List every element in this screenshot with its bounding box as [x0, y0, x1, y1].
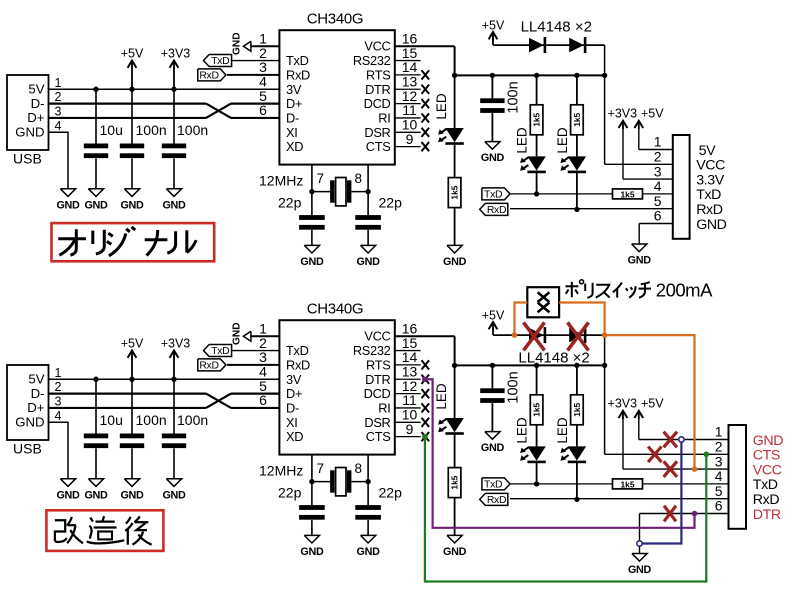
- svg-text:8: 8: [355, 171, 363, 186]
- svg-text:10u: 10u: [100, 412, 123, 428]
- svg-text:22p: 22p: [278, 485, 302, 501]
- svg-text:+5V: +5V: [641, 396, 664, 410]
- svg-text:GND: GND: [84, 199, 108, 211]
- svg-text:22p: 22p: [379, 195, 403, 211]
- svg-text:DSR: DSR: [364, 125, 390, 140]
- svg-text:+3V3: +3V3: [161, 47, 191, 61]
- svg-text:RxD: RxD: [286, 67, 310, 82]
- svg-text:8: 8: [355, 461, 363, 476]
- svg-text:1: 1: [715, 424, 723, 440]
- svg-text:GND: GND: [15, 125, 44, 140]
- svg-text:6: 6: [259, 102, 267, 118]
- svg-text:100n: 100n: [136, 122, 167, 138]
- svg-text:GND: GND: [300, 256, 324, 268]
- svg-text:TxD: TxD: [484, 480, 502, 491]
- svg-text:DTR: DTR: [753, 507, 781, 523]
- svg-text:RxD: RxD: [487, 495, 506, 506]
- svg-text:1: 1: [654, 134, 662, 150]
- svg-text:CTS: CTS: [366, 139, 391, 154]
- svg-text:D+: D+: [286, 96, 302, 111]
- svg-text:GND: GND: [696, 217, 726, 233]
- svg-text:RxD: RxD: [696, 202, 723, 218]
- svg-text:6: 6: [715, 498, 723, 514]
- svg-text:GND: GND: [162, 199, 186, 211]
- svg-text:D+: D+: [27, 400, 45, 415]
- svg-text:RI: RI: [378, 110, 390, 125]
- svg-text:RxD: RxD: [199, 71, 218, 82]
- svg-text:7: 7: [317, 171, 325, 186]
- svg-text:GND: GND: [162, 489, 186, 501]
- svg-text:1k5: 1k5: [532, 402, 542, 416]
- svg-text:GND: GND: [300, 546, 324, 558]
- svg-text:DSR: DSR: [364, 415, 390, 430]
- svg-text:GND: GND: [231, 32, 242, 55]
- svg-text:USB: USB: [13, 151, 42, 167]
- svg-text:TxD: TxD: [211, 56, 229, 67]
- svg-text:12MHz: 12MHz: [259, 463, 303, 479]
- svg-text:RI: RI: [378, 400, 390, 415]
- svg-text:10u: 10u: [100, 122, 123, 138]
- svg-text:RTS: RTS: [366, 67, 390, 82]
- svg-text:22p: 22p: [379, 485, 403, 501]
- svg-text:4: 4: [55, 409, 62, 423]
- svg-text:LED: LED: [555, 127, 570, 154]
- svg-text:RS232: RS232: [353, 53, 391, 68]
- svg-text:GND: GND: [120, 489, 144, 501]
- svg-text:3V: 3V: [286, 82, 302, 97]
- svg-text:3: 3: [55, 104, 62, 118]
- svg-text:9: 9: [406, 131, 414, 147]
- svg-text:2: 2: [55, 380, 62, 394]
- svg-text:3: 3: [715, 453, 723, 469]
- svg-text:GND: GND: [753, 433, 783, 449]
- svg-text:LED: LED: [434, 93, 449, 120]
- svg-text:1k5: 1k5: [450, 475, 460, 489]
- svg-text:GND: GND: [15, 415, 44, 430]
- svg-text:100n: 100n: [177, 122, 208, 138]
- svg-text:TxD: TxD: [753, 477, 778, 493]
- svg-text:+5V: +5V: [641, 106, 664, 120]
- svg-text:7: 7: [317, 461, 325, 476]
- svg-text:CH340G: CH340G: [307, 301, 364, 318]
- svg-text:RTS: RTS: [366, 357, 390, 372]
- svg-text:CTS: CTS: [753, 448, 780, 464]
- svg-text:1k5: 1k5: [621, 479, 635, 489]
- svg-text:D+: D+: [27, 110, 45, 125]
- svg-text:GND: GND: [56, 489, 80, 501]
- svg-text:LED: LED: [515, 127, 530, 154]
- svg-text:GND: GND: [120, 199, 144, 211]
- svg-text:3: 3: [55, 394, 62, 408]
- svg-text:XI: XI: [286, 125, 298, 140]
- svg-text:RxD: RxD: [286, 357, 310, 372]
- svg-text:GND: GND: [443, 546, 467, 558]
- svg-text:4: 4: [654, 178, 662, 194]
- svg-text:1k5: 1k5: [450, 185, 460, 199]
- svg-text:5V: 5V: [699, 143, 716, 159]
- svg-text:LL4148 ×2: LL4148 ×2: [521, 19, 592, 36]
- svg-text:DCD: DCD: [364, 96, 391, 111]
- svg-text:+5V: +5V: [121, 47, 144, 61]
- svg-text:XD: XD: [286, 429, 303, 444]
- svg-text:2: 2: [715, 439, 723, 455]
- svg-text:TxD: TxD: [484, 190, 502, 201]
- svg-text:DTR: DTR: [365, 372, 390, 387]
- svg-text:22p: 22p: [278, 195, 302, 211]
- svg-text:LED: LED: [515, 417, 530, 444]
- svg-text:D+: D+: [286, 386, 302, 401]
- svg-text:200mA: 200mA: [656, 279, 713, 300]
- svg-text:LED: LED: [434, 383, 449, 410]
- svg-text:GND: GND: [357, 256, 381, 268]
- svg-text:VCC: VCC: [364, 329, 390, 344]
- svg-text:100n: 100n: [506, 371, 522, 403]
- svg-text:GND: GND: [84, 489, 108, 501]
- svg-text:+5V: +5V: [121, 337, 144, 351]
- svg-text:6: 6: [259, 392, 267, 408]
- svg-text:DCD: DCD: [364, 386, 391, 401]
- svg-text:1k5: 1k5: [572, 112, 582, 126]
- svg-text:D-: D-: [31, 386, 45, 401]
- svg-text:3V: 3V: [286, 372, 302, 387]
- svg-text:+5V: +5V: [482, 309, 505, 323]
- svg-text:100n: 100n: [177, 412, 208, 428]
- svg-text:CTS: CTS: [366, 429, 391, 444]
- svg-text:+3V3: +3V3: [608, 106, 638, 120]
- svg-text:4: 4: [55, 119, 62, 133]
- svg-text:CH340G: CH340G: [307, 11, 364, 28]
- svg-text:D-: D-: [286, 400, 299, 415]
- svg-text:3.3V: 3.3V: [696, 172, 725, 188]
- svg-text:6: 6: [654, 208, 662, 224]
- svg-text:GND: GND: [628, 255, 652, 267]
- svg-text:1k5: 1k5: [572, 402, 582, 416]
- svg-text:VCC: VCC: [753, 462, 782, 478]
- svg-text:GND: GND: [443, 256, 467, 268]
- svg-text:USB: USB: [13, 441, 42, 457]
- svg-text:TxD: TxD: [286, 53, 309, 68]
- svg-text:GND: GND: [56, 199, 80, 211]
- svg-text:100n: 100n: [136, 412, 167, 428]
- svg-text:5: 5: [654, 193, 662, 209]
- svg-text:GND: GND: [231, 322, 242, 345]
- svg-text:4: 4: [715, 468, 723, 484]
- svg-text:GND: GND: [481, 152, 505, 164]
- svg-text:RxD: RxD: [753, 492, 780, 508]
- svg-text:DTR: DTR: [365, 82, 390, 97]
- svg-text:GND: GND: [481, 442, 505, 454]
- svg-text:TxD: TxD: [211, 346, 229, 357]
- svg-text:RxD: RxD: [199, 361, 218, 372]
- svg-text:RxD: RxD: [487, 205, 506, 216]
- svg-text:1k5: 1k5: [532, 112, 542, 126]
- svg-text:1k5: 1k5: [621, 189, 635, 199]
- svg-text:1: 1: [55, 76, 62, 90]
- svg-text:D-: D-: [286, 110, 299, 125]
- svg-text:LED: LED: [555, 417, 570, 444]
- svg-text:VCC: VCC: [364, 39, 390, 54]
- svg-text:+3V3: +3V3: [608, 396, 638, 410]
- svg-text:12MHz: 12MHz: [259, 173, 303, 189]
- svg-text:GND: GND: [628, 564, 652, 576]
- svg-text:XD: XD: [286, 139, 303, 154]
- svg-text:3: 3: [654, 163, 662, 179]
- svg-text:TxD: TxD: [286, 343, 309, 358]
- svg-text:1: 1: [55, 366, 62, 380]
- svg-text:+3V3: +3V3: [161, 337, 191, 351]
- svg-text:GND: GND: [357, 546, 381, 558]
- svg-text:5: 5: [715, 483, 723, 499]
- svg-text:2: 2: [654, 149, 662, 165]
- svg-text:RS232: RS232: [353, 343, 391, 358]
- svg-text:9: 9: [406, 421, 414, 437]
- svg-text:TxD: TxD: [696, 187, 721, 203]
- svg-text:5V: 5V: [28, 371, 44, 386]
- svg-text:D-: D-: [31, 96, 45, 111]
- svg-text:2: 2: [55, 90, 62, 104]
- svg-text:XI: XI: [286, 415, 298, 430]
- svg-text:+5V: +5V: [482, 19, 505, 33]
- svg-text:5V: 5V: [28, 81, 44, 96]
- svg-text:VCC: VCC: [696, 158, 725, 174]
- svg-text:100n: 100n: [506, 81, 522, 113]
